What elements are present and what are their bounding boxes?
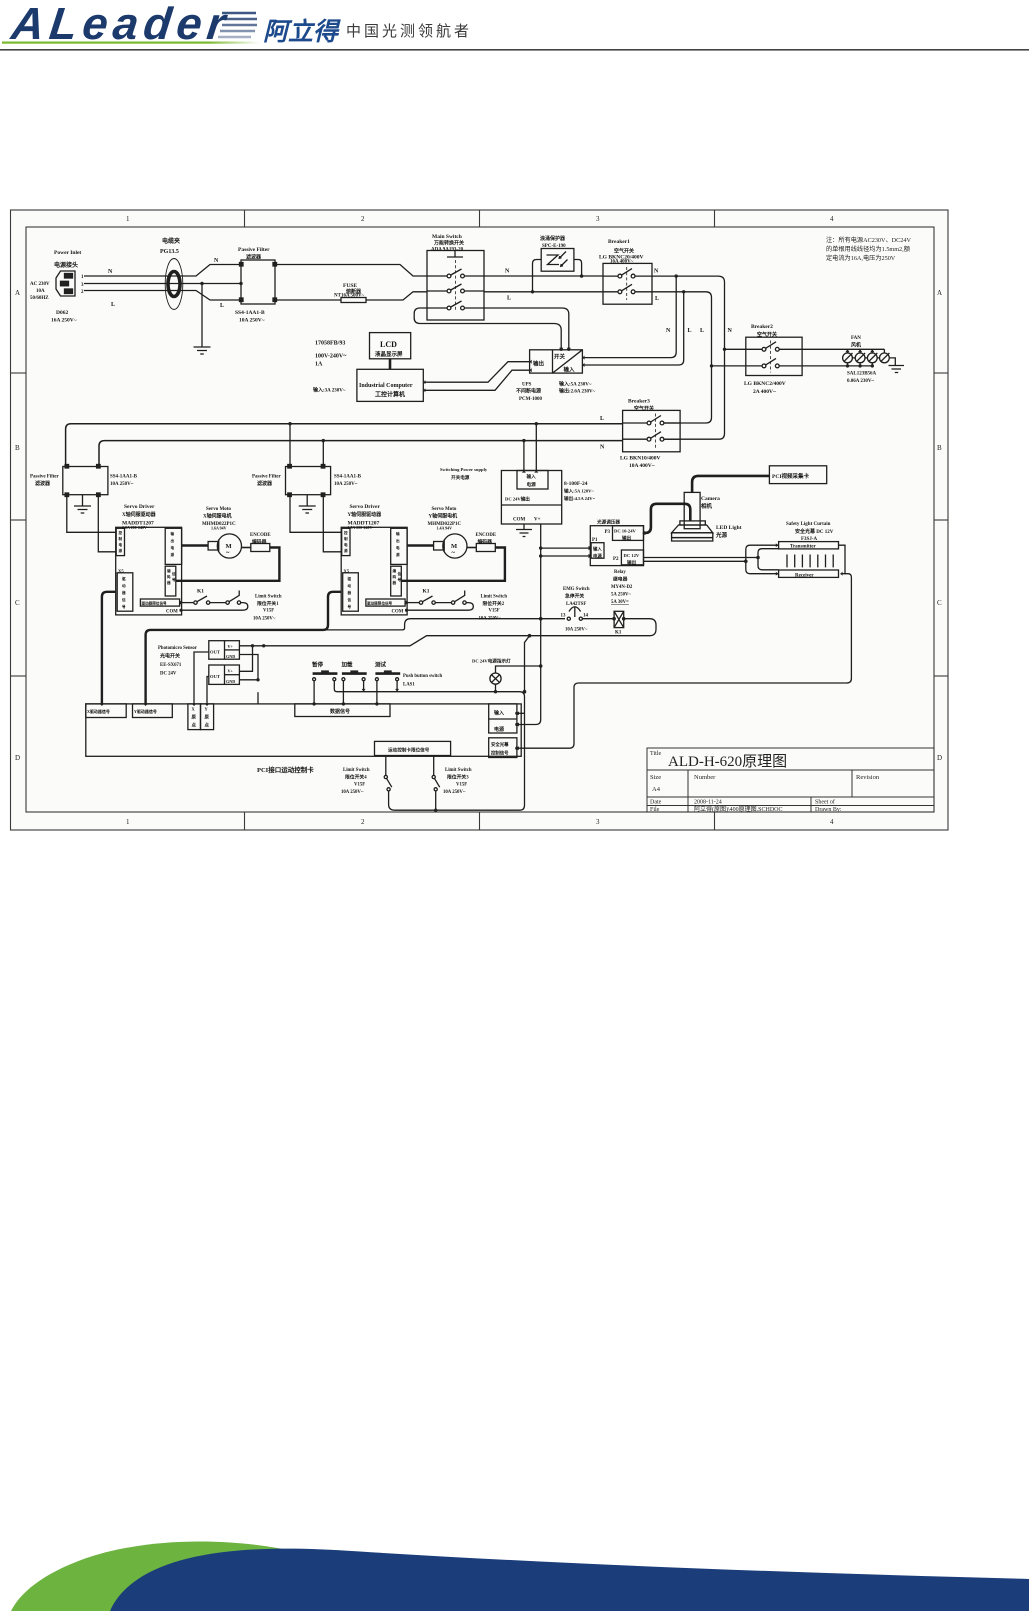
svg-text:L: L [655, 296, 659, 302]
svg-text:急停开关: 急停开关 [565, 593, 584, 600]
svg-text:滤波器: 滤波器 [246, 254, 262, 261]
svg-text:1: 1 [126, 818, 130, 826]
svg-text:50/60HZ: 50/60HZ [30, 296, 49, 301]
port data signal [295, 704, 390, 717]
svg-text:输入: 输入 [494, 710, 504, 717]
svg-text:ADA 9A193-20: ADA 9A193-20 [431, 248, 464, 253]
svg-text:Limit Switch: Limit Switch [255, 595, 282, 600]
sheet outer border [11, 210, 949, 830]
wire taps down to psu [524, 424, 536, 471]
svg-text:D062: D062 [56, 310, 68, 316]
svg-text:的单根用线线径均为1.5mm2,额: 的单根用线线径均为1.5mm2,额 [826, 245, 911, 253]
breaker1 QF1 [603, 263, 652, 304]
svg-text:输入: 输入 [527, 473, 537, 480]
motion control card PCI1 [86, 704, 521, 756]
wire N bus to breaker3 [99, 441, 623, 467]
svg-text:K1: K1 [615, 631, 622, 636]
svg-text:SPC-E-190: SPC-E-190 [542, 244, 566, 249]
svg-text:2A 400V~: 2A 400V~ [753, 389, 776, 395]
svg-text:Title: Title [650, 751, 661, 757]
wire curtain return to card [517, 574, 852, 749]
svg-text:SS4-1AA1-B: SS4-1AA1-B [334, 475, 362, 480]
svg-text:空气开关: 空气开关 [614, 248, 634, 255]
svg-text:0.06A 230V~: 0.06A 230V~ [847, 379, 874, 384]
UPS U1 [530, 350, 585, 373]
svg-text:电: 电 [396, 545, 400, 550]
encoder Y [476, 544, 495, 552]
svg-text:P3: P3 [605, 530, 611, 535]
wire UPS out to computer top [423, 362, 529, 383]
svg-text:Industrial Computer: Industrial Computer [359, 383, 413, 389]
svg-text:1A: 1A [315, 362, 323, 368]
svg-text:V15F: V15F [354, 783, 365, 788]
svg-text:电: 电 [171, 545, 175, 550]
svg-text:电源: 电源 [593, 553, 602, 560]
ground earth PE [194, 347, 211, 354]
svg-text:光源: 光源 [715, 531, 728, 539]
wire L down to UPS right [582, 292, 683, 365]
svg-text:Date: Date [650, 800, 662, 806]
zone ticks right [934, 372, 948, 374]
svg-text:Number: Number [694, 774, 716, 781]
svg-text:K1: K1 [423, 589, 430, 595]
wire fan bottom [802, 365, 872, 367]
svg-text:原: 原 [205, 714, 210, 721]
wire UPS feed from switch row3 right [484, 308, 569, 350]
svg-text:10A 250V~: 10A 250V~ [334, 482, 358, 487]
svg-text:输入: 输入 [593, 546, 602, 553]
svg-text:电源: 电源 [494, 726, 504, 733]
svg-text:器: 器 [166, 580, 171, 585]
svg-text:1.5A 200-240V~: 1.5A 200-240V~ [348, 525, 376, 530]
svg-text:L: L [700, 328, 704, 334]
LED light fixture [672, 521, 713, 541]
svg-text:2008-11-24: 2008-11-24 [694, 800, 722, 806]
svg-text:1: 1 [126, 215, 130, 223]
svg-text:X5: X5 [118, 569, 124, 574]
navy swoosh [110, 1549, 1029, 1611]
wire FL3 to Y driver [290, 497, 341, 552]
svg-text:DC 24V电源指示灯: DC 24V电源指示灯 [472, 658, 511, 665]
svg-text:Passive Filter: Passive Filter [238, 247, 270, 253]
svg-text:Revision: Revision [856, 774, 880, 781]
svg-text:NT16A 500V~: NT16A 500V~ [334, 294, 365, 299]
wire transmitter-receiver link [839, 545, 846, 574]
svg-text:10A 250V~: 10A 250V~ [253, 617, 276, 622]
svg-text:MY4N-D2: MY4N-D2 [611, 585, 633, 590]
svg-text:LED Light: LED Light [716, 525, 742, 531]
svg-text:器: 器 [121, 590, 126, 595]
svg-text:Passive Filter: Passive Filter [30, 475, 60, 480]
wire UPS out to computer bottom [423, 370, 529, 390]
svg-text:100V-240V~: 100V-240V~ [315, 354, 347, 360]
svg-text:SS4-1AA1-B: SS4-1AA1-B [235, 310, 265, 316]
wire PSU to P1 input [541, 548, 591, 556]
svg-text:L: L [507, 296, 511, 302]
svg-text:AC 230V: AC 230V [30, 282, 50, 287]
svg-text:Breaker3: Breaker3 [628, 399, 650, 405]
wire L main switch to breaker1 [484, 291, 603, 293]
camera video cable [692, 476, 770, 493]
svg-text:1.6A 200-240V~: 1.6A 200-240V~ [122, 525, 150, 530]
svg-text:Transmitter: Transmitter [790, 545, 817, 550]
svg-text:源: 源 [344, 548, 348, 553]
svg-text:Safety Light Curtain: Safety Light Curtain [786, 522, 831, 527]
svg-text:Photomicro Sensor: Photomicro Sensor [158, 646, 198, 651]
node pushbutton leg junctions [312, 702, 315, 705]
svg-text:SAL123B56A: SAL123B56A [847, 372, 877, 377]
motor X M2 [208, 534, 241, 558]
svg-text:V15F: V15F [263, 609, 274, 614]
wire sensor GND to card [257, 692, 259, 704]
svg-text:13: 13 [561, 614, 567, 619]
svg-text:驱: 驱 [121, 576, 126, 581]
svg-text:10A: 10A [36, 289, 45, 294]
relay coil K1 [612, 611, 625, 627]
wire Y encoder loop [401, 548, 505, 581]
passive filter FL3 [286, 465, 331, 497]
svg-text:号: 号 [348, 604, 352, 609]
svg-text:10A 250V~: 10A 250V~ [239, 318, 265, 324]
svg-text:Main Switch: Main Switch [432, 234, 462, 240]
node sensor V+ junctions [251, 644, 254, 647]
wire N riser to breaker2/3 [665, 276, 725, 439]
svg-text:器: 器 [347, 590, 352, 595]
port power input [489, 704, 517, 733]
svg-text:X轴伺服电机: X轴伺服电机 [203, 513, 232, 520]
svg-text:原: 原 [192, 714, 197, 721]
svg-text:N: N [654, 269, 659, 275]
svg-text:8-100F-24: 8-100F-24 [564, 481, 588, 487]
wire L inlet to filter [84, 291, 241, 301]
servo driver X U2 [116, 527, 182, 615]
svg-text:点: 点 [192, 722, 197, 729]
relay contact K1b [405, 591, 474, 612]
camera CAM1 [684, 492, 700, 528]
svg-text:点: 点 [205, 722, 210, 729]
fuse F1 [341, 298, 366, 303]
svg-text:FUSE: FUSE [343, 283, 357, 289]
passive filter FL2 [63, 465, 108, 497]
svg-text:限位开关3: 限位开关3 [447, 774, 469, 781]
svg-text:2: 2 [361, 818, 365, 826]
svg-text:开关电源: 开关电源 [451, 474, 470, 481]
svg-text:ALD-H-620原理图: ALD-H-620原理图 [668, 753, 787, 770]
port limit signal [375, 741, 451, 755]
svg-text:Relay: Relay [614, 570, 626, 575]
svg-text:驱动器限位信号: 驱动器限位信号 [141, 601, 168, 606]
node UPS top junctions [560, 348, 563, 351]
svg-text:3: 3 [596, 818, 600, 826]
limit switch SQ4 [384, 756, 392, 791]
svg-text:Breaker1: Breaker1 [608, 239, 630, 245]
svg-text:L: L [688, 328, 692, 334]
vertical port texts driver Y [344, 530, 402, 609]
svg-text:Power Inlet: Power Inlet [54, 250, 81, 256]
svg-text:COM: COM [513, 518, 526, 523]
wire common to card input [517, 712, 525, 714]
svg-text:工控计算机: 工控计算机 [375, 391, 405, 399]
wire curtain inner parallel loop [758, 549, 779, 570]
svg-text:PCM-1000: PCM-1000 [519, 397, 543, 402]
svg-text:Push button switch: Push button switch [403, 674, 443, 679]
svg-text:源: 源 [396, 552, 400, 557]
note annotation top-right [826, 236, 911, 262]
wire EMG to coil [583, 618, 615, 620]
svg-text:注：所有电源AC230V、DC24V: 注：所有电源AC230V、DC24V [826, 236, 911, 244]
svg-text:D: D [15, 754, 20, 762]
svg-text:F3SJ-A: F3SJ-A [801, 537, 818, 542]
svg-text:Size: Size [650, 774, 661, 781]
wire sensor GND [239, 655, 258, 680]
svg-text:驱: 驱 [347, 576, 352, 581]
wire taps to breaker2 [712, 349, 746, 366]
limit switch SQ3 [432, 756, 440, 812]
svg-text:COM: COM [166, 610, 178, 615]
svg-text:1.4A 94V: 1.4A 94V [437, 526, 453, 531]
svg-text:P2: P2 [613, 557, 619, 562]
fan M1 lamps [843, 349, 890, 367]
svg-text:X5: X5 [344, 569, 350, 574]
sheet background tint [11, 210, 949, 830]
curtain beams [787, 555, 833, 568]
ground filter FL3 [299, 495, 316, 513]
svg-text:电: 电 [119, 542, 123, 547]
svg-text:Switching Power supply: Switching Power supply [440, 467, 488, 472]
svg-text:码: 码 [393, 574, 397, 579]
svg-text:B: B [937, 444, 942, 452]
svg-text:Limit Switch: Limit Switch [343, 768, 370, 773]
svg-text:P1: P1 [592, 538, 598, 543]
svg-text:10A 250V~: 10A 250V~ [110, 482, 134, 487]
curtain receiver [779, 570, 839, 577]
svg-text:号: 号 [172, 577, 176, 582]
node sensor GND junction [256, 678, 259, 681]
svg-text:Servo Driver: Servo Driver [350, 504, 381, 510]
PCI video capture card [769, 466, 826, 484]
svg-text:L: L [111, 302, 115, 308]
green underline [0, 0, 1, 1]
wire L riser to breaker2/3 [665, 292, 712, 423]
node N tap / node L tap after breaker1 [675, 274, 678, 277]
pushbutton SB3 [375, 670, 400, 704]
svg-text:C: C [937, 599, 942, 607]
svg-text:16A 250V~: 16A 250V~ [51, 318, 77, 324]
ground filter FL2 [74, 495, 91, 513]
common bus wire [337, 692, 525, 811]
svg-text:4: 4 [830, 215, 834, 223]
servo driver Y U3 [341, 527, 407, 615]
wire N breaker1 out [652, 275, 718, 277]
svg-text:安全光幕: 安全光幕 [491, 741, 509, 748]
wire X encoder loop [176, 548, 280, 581]
svg-text:控: 控 [119, 530, 123, 535]
svg-text:光源调压器: 光源调压器 [596, 519, 620, 526]
wire taps down to filter2 [290, 424, 323, 464]
svg-text:输出: 输出 [622, 535, 632, 542]
svg-text:V+: V+ [534, 518, 541, 523]
svg-text:5A 250V~: 5A 250V~ [611, 593, 631, 598]
svg-text:Servo Moto: Servo Moto [432, 507, 457, 512]
svg-text:光电开关: 光电开关 [159, 653, 180, 660]
svg-text:输出:2.6A 230V~: 输出:2.6A 230V~ [559, 388, 596, 395]
svg-text:动: 动 [122, 583, 126, 588]
svg-text:号: 号 [398, 577, 402, 582]
svg-text:A: A [937, 289, 942, 297]
svg-text:风机: 风机 [851, 342, 861, 349]
svg-text:继电器: 继电器 [613, 576, 628, 583]
motor Y M3 [434, 534, 467, 558]
light regulator P1/P2/P3 [590, 526, 643, 566]
svg-text:安全光幕 DC 12V: 安全光幕 DC 12V [795, 528, 834, 535]
wire curtain outer parallel loop [746, 545, 779, 574]
svg-text:Y轴伺服电机: Y轴伺服电机 [429, 513, 458, 520]
cable clamp PG13.5 [165, 259, 183, 310]
svg-text:Servo Driver: Servo Driver [124, 504, 155, 510]
svg-text:信: 信 [398, 571, 402, 576]
svg-text:暂停: 暂停 [312, 661, 324, 669]
svg-text:限位开关2: 限位开关2 [483, 600, 505, 607]
EMG stop switch SB0 [567, 607, 582, 621]
zone ticks left [11, 372, 27, 374]
svg-text:C: C [15, 599, 20, 607]
svg-text:输出:4.5A 24V=: 输出:4.5A 24V= [564, 495, 596, 502]
svg-text:加载: 加载 [341, 661, 354, 669]
svg-text:控制信号: 控制信号 [491, 750, 509, 757]
port Y driver signal [133, 704, 173, 718]
svg-text:Drawn By:: Drawn By: [815, 807, 842, 813]
svg-text:定电流为16A,电压为250V: 定电流为16A,电压为250V [826, 254, 896, 262]
svg-text:DC 10-24V: DC 10-24V [614, 529, 637, 534]
wire sensor OUT to origin Y [207, 677, 209, 704]
svg-text:10A 250V~: 10A 250V~ [443, 790, 466, 795]
svg-text:GND: GND [226, 654, 235, 659]
wire common riser from relay return [525, 636, 530, 692]
svg-text:出: 出 [171, 538, 175, 543]
svg-text:OUT: OUT [210, 674, 220, 679]
vertical port texts driver X [119, 530, 177, 609]
svg-text:B: B [15, 444, 20, 452]
svg-text:空气开关: 空气开关 [634, 405, 654, 412]
svg-text:Camera: Camera [701, 496, 720, 502]
node V+ rail taps [539, 546, 542, 549]
svg-text:A4: A4 [652, 786, 661, 793]
curtain transmitter [779, 542, 839, 549]
node card port junctions [515, 712, 518, 715]
port safety curtain signal [489, 738, 517, 758]
svg-text:V15F: V15F [489, 609, 500, 614]
svg-text:输: 输 [171, 531, 175, 536]
svg-text:Breaker2: Breaker2 [751, 324, 773, 330]
svg-text:动: 动 [348, 583, 352, 588]
power inlet J1 [56, 271, 75, 296]
svg-text:源: 源 [171, 552, 175, 557]
wire N filter to main switch [275, 265, 427, 277]
svg-text:电源: 电源 [527, 481, 537, 488]
svg-text:N: N [108, 269, 113, 275]
wire L breaker1 out [652, 291, 706, 293]
industrial computer PC1 [357, 369, 423, 401]
logo ALeader [8, 0, 234, 49]
svg-text:V15F: V15F [456, 783, 467, 788]
svg-text:万能转换开关: 万能转换开关 [433, 240, 464, 247]
svg-text:运动控制卡限位信号: 运动控制卡限位信号 [388, 747, 430, 754]
svg-text:输入:5A 120V~: 输入:5A 120V~ [564, 488, 594, 495]
svg-text:滤波器: 滤波器 [35, 480, 51, 487]
sheet inner border [26, 227, 934, 812]
pushbutton SB1 [313, 670, 338, 704]
breaker2 QF2 [746, 337, 802, 375]
svg-text:制: 制 [344, 536, 348, 541]
relay+EMG wire [323, 619, 565, 630]
zone ticks bottom [244, 812, 246, 830]
svg-text:2: 2 [361, 215, 365, 223]
node breaker2 taps [723, 348, 726, 351]
svg-text:测试: 测试 [375, 661, 387, 669]
wire PE down [201, 284, 203, 348]
svg-text:阿立得: 阿立得 [263, 18, 341, 46]
svg-text:阿立得(原图)\400原理图.SCHDOC: 阿立得(原图)\400原理图.SCHDOC [694, 805, 783, 813]
port Y origin [201, 704, 214, 730]
passive filter FL1 [240, 260, 277, 304]
svg-text:UPS: UPS [522, 383, 532, 388]
surge protector SPD [531, 249, 584, 294]
arrow pins into card ports [100, 348, 571, 751]
svg-text:编码器: 编码器 [252, 538, 267, 545]
svg-text:N: N [505, 269, 510, 275]
wire X driver to motor [182, 544, 209, 546]
svg-text:液晶显示屏: 液晶显示屏 [375, 350, 403, 358]
logo speed stripes [218, 13, 257, 37]
svg-text:输出: 输出 [627, 559, 637, 566]
wire LCD to computer [389, 359, 392, 370]
wire coil return loop [264, 619, 656, 646]
thick bus Y driver to card [146, 592, 342, 704]
svg-text:3: 3 [596, 215, 600, 223]
wire L fuse to main switch [366, 292, 427, 300]
wire FL2 to X driver [67, 497, 116, 552]
svg-text:限位开关4: 限位开关4 [345, 774, 367, 781]
svg-text:LCD: LCD [380, 340, 397, 349]
encoder X [251, 544, 270, 552]
svg-text:X轴伺服驱动器: X轴伺服驱动器 [122, 511, 157, 518]
svg-text:SS4-1AA1-B: SS4-1AA1-B [110, 475, 138, 480]
zone ticks top [244, 210, 246, 227]
main switch S1 [427, 251, 484, 321]
svg-text:电: 电 [344, 542, 348, 547]
svg-text:COM: COM [392, 610, 404, 615]
svg-text:16A 400V~: 16A 400V~ [610, 260, 634, 265]
indicator lamp HL1 [490, 666, 541, 693]
svg-text:Passive Filter: Passive Filter [252, 475, 282, 480]
wire V+ rail [517, 524, 541, 725]
wire sensor OUT to origin X [194, 652, 209, 704]
svg-text:浪涌保护器: 浪涌保护器 [540, 235, 566, 242]
green swoosh [11, 1542, 320, 1611]
svg-text:信: 信 [172, 571, 176, 576]
svg-text:10A 400V~: 10A 400V~ [629, 463, 655, 469]
svg-text:输入: 输入 [564, 366, 576, 374]
svg-text:相机: 相机 [701, 502, 713, 510]
svg-text:LA42TSF: LA42TSF [566, 602, 586, 607]
LCD display [370, 333, 411, 359]
thick bus X driver to card [102, 592, 116, 704]
switching power supply PSU 8-100F-24 [501, 471, 561, 525]
relay contact K1a [179, 591, 248, 612]
svg-text:LG BKN10/400V: LG BKN10/400V [620, 456, 661, 462]
svg-text:器: 器 [392, 580, 397, 585]
wire L filter to fuse [275, 299, 341, 301]
